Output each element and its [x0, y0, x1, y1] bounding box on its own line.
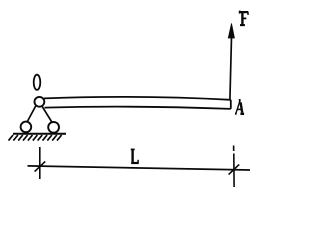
roller circle left — [21, 122, 32, 133]
roller circle right — [48, 122, 59, 133]
label F — [239, 11, 248, 26]
label L — [131, 149, 139, 163]
dimension tick right — [229, 164, 240, 174]
ground hatching — [9, 135, 62, 141]
pin support circle at O — [35, 97, 45, 107]
dimension tick left — [35, 161, 46, 171]
dimension line L — [28, 166, 251, 170]
support left leg — [27, 106, 36, 122]
dimension extension line right — [233, 154, 235, 188]
beam OA — [44, 97, 231, 109]
ground line — [13, 133, 66, 135]
node O label — [34, 75, 41, 90]
node A label — [235, 99, 244, 114]
dimension extension line left — [39, 147, 41, 179]
force F arrowhead — [228, 24, 234, 39]
force F arrow shaft — [230, 37, 232, 100]
dimension extension line right (top dash) — [233, 146, 235, 152]
support right leg — [42, 106, 52, 122]
